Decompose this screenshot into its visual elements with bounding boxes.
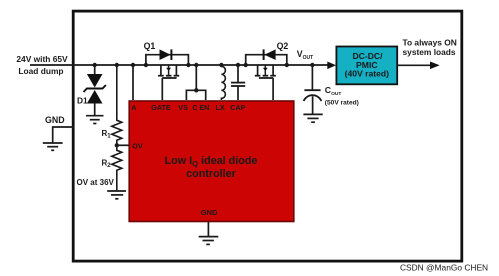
ground (left GND) — [43, 143, 63, 150]
svg-text:A: A — [131, 103, 136, 112]
Q1 MOSFET symbol — [160, 65, 162, 75]
net label: 24V with 65V Load dump — [16, 54, 68, 76]
node: rail junction dots — [93, 63, 315, 67]
ground (R2) — [107, 191, 126, 199]
svg-text:CSDN @ManGo CHEN: CSDN @ManGo CHEN — [400, 262, 488, 272]
IC U1: Low IQ ideal diode controller (red block) — [129, 101, 294, 222]
node: OV divider tap — [115, 143, 119, 147]
svg-text:R1: R1 — [102, 129, 112, 140]
svg-text:(50V rated): (50V rated) — [325, 100, 359, 107]
diode: Q1 body diode — [160, 49, 171, 60]
transistor Q2 (with body diode branch) — [246, 49, 287, 100]
svg-text:COUT: COUT — [325, 85, 342, 97]
controller title — [165, 155, 258, 180]
Q2 MOSFET symbol — [257, 65, 259, 75]
svg-text:GND: GND — [45, 115, 65, 125]
ground (controller GND) — [199, 237, 219, 245]
svg-text:OV: OV — [132, 142, 143, 151]
svg-text:Q2: Q2 — [277, 41, 289, 51]
diode: Q2 body diode — [264, 49, 275, 60]
svg-text:R2: R2 — [102, 159, 112, 170]
svg-text:CAP: CAP — [230, 103, 245, 112]
TVS diode D1 — [84, 65, 106, 116]
wire: Q1 gate to GATE pin — [161, 78, 163, 100]
svg-text:C: C — [192, 103, 197, 112]
wire: rail to controller pin A — [132, 65, 134, 100]
svg-text:GATE: GATE — [151, 103, 171, 112]
wire: input rail VIN (y=65) — [30, 64, 329, 66]
wire: Q2 gate down to controller — [272, 78, 274, 100]
wire: VOUT to DC-DC with arrowhead — [327, 62, 336, 70]
svg-text:LX: LX — [216, 103, 225, 112]
transistor Q1 (with body diode branch) — [146, 49, 189, 100]
label: To always ON system loads — [403, 38, 457, 57]
svg-text:Q1: Q1 — [144, 41, 156, 51]
block: DC-DC / PMIC — [336, 47, 397, 85]
node: VS/EN split — [194, 88, 198, 92]
wire: OV tap to controller OV pin — [117, 144, 129, 146]
wire: DC-DC output arrow to loads — [397, 64, 430, 66]
svg-text:GND: GND — [201, 208, 218, 217]
svg-text:D1: D1 — [77, 96, 88, 106]
capacitor (CAP pin bootstrap) — [231, 65, 245, 100]
pin labels — [131, 103, 245, 217]
inductor L1 (rail to LX) — [221, 65, 225, 100]
svg-text:controller: controller — [186, 168, 237, 180]
wire: Q1 diode branch — [146, 55, 189, 65]
wire: GND tie to boundary — [53, 127, 74, 143]
ground (D1) — [86, 116, 104, 124]
svg-text:VOUT: VOUT — [297, 49, 313, 61]
capacitor COUT — [304, 65, 322, 114]
ground (COUT) — [303, 114, 322, 122]
svg-text:Low IQ ideal diode: Low IQ ideal diode — [165, 155, 258, 168]
resistor R2 — [112, 145, 122, 191]
system boundary box — [73, 11, 462, 261]
wire: split to VS and EN pins — [186, 90, 205, 100]
svg-text:Load dump: Load dump — [18, 66, 63, 76]
wire: controller GND pin down — [207, 222, 209, 237]
svg-text:EN: EN — [199, 103, 209, 112]
svg-text:24V with 65V: 24V with 65V — [16, 54, 68, 64]
svg-text:system loads: system loads — [403, 47, 456, 57]
svg-text:VS: VS — [178, 103, 188, 112]
wire: rail to VS/EN pins — [195, 65, 197, 90]
wire: Q2 diode branch — [246, 55, 287, 65]
svg-text:OV at 36V: OV at 36V — [77, 178, 115, 187]
svg-text:(40V rated): (40V rated) — [345, 68, 390, 78]
resistor R1 — [112, 65, 122, 145]
